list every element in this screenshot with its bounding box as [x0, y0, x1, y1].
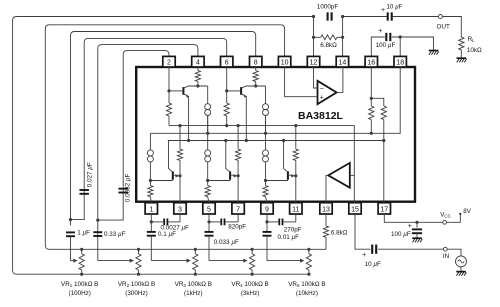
label 100uF top [376, 42, 396, 49]
label 0.33uF [104, 231, 126, 238]
junction pin11 line on bus1 [294, 124, 297, 127]
wire pin6 interior line [226, 67, 228, 126]
svg-text:(300Hz): (300Hz) [125, 290, 147, 297]
junction left resistor on bus2 [370, 132, 373, 135]
pin 10 [278, 56, 290, 67]
junction emitter on bus3 cell top1 [187, 139, 190, 142]
label OUT [437, 24, 450, 31]
svg-text:10 µF: 10 µF [386, 4, 402, 11]
pin 17 [378, 203, 390, 214]
transistor Q5 bar [287, 171, 289, 180]
label IN [443, 253, 450, 260]
junction VR3 top on bus [194, 248, 197, 251]
wire CS bottom [265, 162, 267, 181]
transistor Q2/cell2 emitter [241, 94, 247, 141]
junction pin18 ripple line [399, 35, 402, 38]
junction pin12 top [312, 15, 315, 18]
svg-text:10kΩ: 10kΩ [467, 47, 482, 54]
wiper arrow VR4 [209, 259, 248, 263]
wire pin2 interior line [168, 67, 170, 126]
capacitor 100uF Vcc [412, 222, 422, 237]
pin 8 [250, 56, 262, 67]
capacitor 0.0082uF [118, 189, 128, 193]
potentiometer VR2 100k [136, 249, 141, 274]
resistor to pin9 [263, 181, 268, 203]
capacitor 0.033uF [205, 222, 214, 261]
pin 11 [290, 203, 302, 214]
label 8V [463, 208, 472, 215]
junction Vcc decoupling [415, 221, 418, 224]
wiper arrow VR3 [151, 259, 190, 263]
capacitor 820pF [209, 214, 238, 225]
wire output feedback net (pot bottoms to OUT line) [13, 17, 314, 275]
label 1uF [77, 229, 90, 236]
wire pin14 vertical [342, 17, 344, 57]
junction emitter on pin3 line [178, 174, 181, 177]
resistor on pin3 line [177, 149, 182, 161]
wire OUT line right of pin14 [343, 16, 387, 18]
junction VR4 top on bus [251, 248, 254, 251]
pin 15 [349, 203, 361, 214]
svg-text:9: 9 [265, 206, 269, 213]
potentiometer VR4 100k [250, 249, 255, 274]
label plus 100uF top [378, 28, 382, 35]
svg-text:16: 16 [367, 59, 375, 66]
junction pin1 node [150, 220, 153, 223]
junction pin16 resistor top [370, 97, 373, 100]
label RL value [467, 47, 482, 54]
svg-text:8: 8 [254, 59, 258, 66]
wire pin11 line [295, 126, 297, 203]
wire pin12 vertical [313, 17, 315, 57]
wire base lead bot2 [208, 180, 230, 182]
pin 6 [221, 56, 233, 67]
label 0.0027uF [161, 225, 190, 232]
junction 6.8k left [312, 36, 315, 39]
svg-text:270pF: 270pF [284, 226, 302, 233]
resistor feedback left [369, 106, 374, 120]
svg-text:VR4 100kΩ B: VR4 100kΩ B [231, 281, 268, 288]
wire pin18 to ripple line [399, 37, 401, 56]
op-amp U1 (output amplifier) [318, 81, 337, 104]
svg-text:10 µF: 10 µF [365, 261, 381, 268]
svg-text:17: 17 [380, 206, 388, 213]
junction pin5 node [207, 220, 210, 223]
wire pin4 to band2 cap node [98, 45, 198, 261]
junction collector load [196, 84, 199, 87]
svg-text:10: 10 [281, 59, 289, 66]
junction 6.8k right [341, 36, 344, 39]
resistor RL 10k [459, 37, 464, 50]
svg-text:1 µF: 1 µF [77, 229, 90, 236]
wire base lead top2 [227, 90, 240, 92]
svg-text:6.8kΩ: 6.8kΩ [320, 42, 337, 49]
junction bus3 right end [382, 139, 385, 142]
svg-text:1000pF: 1000pF [317, 4, 339, 11]
capacitor 1uF [66, 232, 75, 236]
svg-text:+: + [408, 223, 412, 230]
wire pin10 to pot-top bus [45, 25, 326, 250]
wire resistor pair top link [371, 98, 384, 106]
resistor base cell top1 [166, 103, 171, 116]
junction pin14 top [341, 15, 344, 18]
transistor Q4 emitter [230, 174, 237, 178]
transistor Q2/cell2 bar [240, 87, 242, 95]
wire pin13 down [325, 214, 327, 226]
wire CS top to bus2 cell bot1 [149, 133, 151, 150]
junction CS on bus2 cell top2 [264, 132, 267, 135]
junction band2 node [96, 219, 99, 222]
potentiometer VR1 100k [79, 249, 84, 274]
pin 9 [261, 203, 273, 214]
pin 13 [320, 203, 332, 214]
label VR5 freq [296, 290, 318, 297]
junction emitter on bus3 cell top2 [245, 139, 248, 142]
pin 14 [336, 56, 348, 67]
svg-text:1: 1 [149, 206, 153, 213]
junction VR3 bottom on bus [194, 273, 197, 276]
label plus 10uF input [362, 252, 366, 259]
label RL [468, 36, 476, 43]
wire collector to current source [265, 86, 267, 104]
resistor 6.8k feedback [314, 35, 343, 40]
junction emitter on pin11 line [294, 174, 297, 177]
current source bottom cell1 [147, 150, 153, 162]
svg-text:(1kHz): (1kHz) [184, 290, 203, 297]
label VR4 freq [241, 290, 260, 297]
wire pin2 through C 0.0082uF to band2 node [98, 51, 169, 221]
svg-text:VR2 100kΩ B: VR2 100kΩ B [118, 281, 155, 288]
wire pin8 to band1 cap node [71, 32, 256, 226]
junction VR2 bottom on bus [137, 273, 140, 276]
source AC input [456, 256, 467, 267]
label VR5 [288, 281, 325, 288]
svg-text:+: + [378, 28, 382, 35]
junction collector on bus3 bot3 [282, 139, 285, 142]
junction VR2 top on bus [137, 248, 140, 251]
transistor Q4 collector [226, 141, 230, 173]
label BA3812L [298, 110, 344, 122]
svg-text:BA3812L: BA3812L [298, 110, 344, 122]
wire band1 cap to wiper [70, 236, 72, 260]
label 0.0082uF [125, 174, 132, 203]
bus node-1 (pin2 cell to pin15 buffer input) [169, 126, 354, 203]
wire pin4 interior [197, 67, 199, 71]
pin 1 [145, 203, 157, 214]
label VR2 [118, 281, 155, 288]
junction collector on bus3 bot2 [224, 139, 227, 142]
op-amp U2 (input buffer) [328, 163, 350, 188]
svg-text:(100Hz): (100Hz) [68, 290, 90, 297]
svg-text:(3kHz): (3kHz) [241, 290, 260, 297]
terminal 8V end [459, 213, 461, 215]
svg-text:0.027 µF: 0.027 µF [87, 162, 94, 187]
junction CS on bus2 cell top1 [206, 132, 209, 135]
wire pin7 line [237, 126, 239, 203]
current source top cell2 [263, 104, 269, 116]
wire U2 input from bus1/pin15 [350, 174, 355, 176]
resistor base cell top2 [224, 103, 229, 116]
svg-text:0.033 µF: 0.033 µF [214, 239, 239, 246]
wire pin10 to U1 non-inverting input [285, 67, 318, 97]
wire pin17 interior [383, 141, 385, 203]
label VR1 [61, 281, 98, 288]
junction VR5 bottom on bus [307, 273, 310, 276]
svg-text:820pF: 820pF [228, 223, 246, 230]
capacitor 100uF top [386, 33, 390, 41]
svg-text:18: 18 [396, 59, 404, 66]
junction VR4 bottom on bus [251, 273, 254, 276]
label Vcc [440, 211, 451, 218]
capacitor 0.01uF [263, 222, 272, 261]
transistor Q3 emitter [173, 174, 179, 178]
wire CS top to bus2 cell bot3 [265, 116, 267, 150]
svg-text:+: + [320, 94, 324, 101]
junction band1 node [69, 218, 72, 221]
wire pin9 junction [266, 214, 268, 222]
current source top cell1 [205, 104, 211, 116]
wire OUT to RL [442, 17, 461, 38]
label 0.01uF [278, 234, 300, 241]
wire base lead top1 [169, 90, 182, 92]
potentiometer VR3 100k [193, 249, 198, 274]
label VR3 freq [184, 290, 203, 297]
pin 2 [163, 56, 175, 67]
label VR2 freq [125, 290, 147, 297]
resistor feedback right [381, 106, 386, 120]
capacitor 0.1uF [147, 222, 156, 261]
resistor on pin7 line [236, 149, 241, 161]
pin 12 [307, 56, 319, 67]
wire pin15 to input cap [355, 214, 370, 249]
svg-text:(10kHz): (10kHz) [296, 290, 318, 297]
svg-text:15: 15 [351, 206, 359, 213]
svg-text:13: 13 [322, 206, 330, 213]
wire current source to bus2 [265, 116, 267, 134]
wire U2 output to pin13 [326, 175, 328, 202]
junction VR5 top on bus [307, 248, 310, 251]
svg-text:+: + [362, 252, 366, 259]
svg-text:0.33 µF: 0.33 µF [104, 231, 126, 238]
label 100uF Vcc [391, 231, 411, 238]
wire collector to current source [207, 86, 209, 104]
capacitor 0.0027uF [151, 214, 180, 225]
svg-text:−: − [320, 86, 324, 93]
svg-text:100 µF: 100 µF [391, 231, 411, 238]
bus node-2 (current sources to pin18) [150, 67, 400, 133]
capacitor 10uF input [372, 245, 376, 254]
label VR1 freq [68, 290, 90, 297]
wire IN to source [447, 249, 461, 256]
bus node-3 (emitter rail to pin17) [168, 140, 384, 142]
transistor Q3 collector [169, 141, 173, 173]
svg-text:8V: 8V [463, 208, 472, 215]
svg-text:RL: RL [468, 36, 476, 43]
svg-text:3: 3 [178, 206, 182, 213]
wire pin8 interior [255, 67, 257, 71]
wire base lead bot3 [266, 180, 288, 182]
label 10uF input [365, 261, 381, 268]
transistor Q5 collector [284, 141, 288, 173]
capacitor 270pF [267, 214, 296, 225]
svg-text:VCC: VCC [440, 211, 451, 218]
capacitor 1000pF [328, 12, 332, 20]
svg-text:0.0082 µF: 0.0082 µF [125, 174, 132, 203]
label 6.8k feedback [320, 42, 337, 49]
junction pin6 line on bus1 [225, 124, 228, 127]
capacitor 0.33uF [93, 232, 102, 236]
junction base tap bot3 [264, 179, 267, 182]
resistor to pin1 [148, 181, 153, 203]
wire RL to ground [460, 50, 462, 58]
potentiometer VR5 100k [306, 249, 311, 274]
wire base lead bot1 [150, 180, 172, 182]
junction base tap pin6 [225, 89, 228, 92]
svg-text:VR5 100kΩ B: VR5 100kΩ B [288, 281, 325, 288]
label 0.1uF [158, 231, 176, 238]
transistor Q3 bar [172, 171, 174, 180]
svg-text:OUT: OUT [437, 24, 450, 31]
label VR3 [175, 281, 212, 288]
wire input cap to IN terminal [378, 248, 443, 250]
label 820pF [228, 223, 246, 230]
svg-text:14: 14 [339, 59, 347, 66]
ground AC source [456, 272, 466, 276]
capacitor 10uF output [388, 12, 392, 20]
label 1000pF [317, 4, 339, 11]
junction pin7 line on bus1 [237, 124, 240, 127]
resistor 6.8k buffer output [323, 226, 328, 249]
pin 4 [192, 56, 204, 67]
pin 18 [394, 56, 406, 67]
svg-text:11: 11 [292, 206, 299, 213]
capacitor 0.027uF [79, 190, 89, 194]
svg-text:7: 7 [236, 206, 240, 213]
wire pin1 junction [150, 214, 152, 222]
svg-text:12: 12 [310, 59, 318, 66]
svg-text:+: + [381, 7, 385, 14]
label 0.033uF [214, 239, 239, 246]
junction collector load [254, 84, 257, 87]
junction pin3 line on bus1 [178, 124, 181, 127]
wire pin6 through C 0.027uF to band1 node [71, 38, 227, 219]
svg-text:IN: IN [443, 253, 450, 260]
wire CS bottom [149, 162, 151, 181]
transistor Q4 bar [229, 171, 231, 180]
junction pin9 node [265, 220, 268, 223]
label VR4 [231, 281, 268, 288]
transistor Q1/cell1 emitter [183, 94, 189, 141]
wire pin12 to U1 inverting input [314, 67, 318, 88]
label 0.027uF [87, 162, 94, 187]
junction base tap pin2 [167, 89, 170, 92]
wire pin17 to Vcc [384, 214, 443, 222]
svg-text:6.8kΩ: 6.8kΩ [331, 229, 348, 236]
transistor Q1/cell1 bar [182, 87, 184, 95]
svg-text:4: 4 [196, 59, 200, 66]
resistor collector load pin4 [195, 71, 200, 87]
current source bottom cell2 [205, 150, 211, 162]
pin 16 [365, 56, 377, 67]
label 10uF [386, 4, 402, 11]
svg-text:0.01 µF: 0.01 µF [278, 234, 300, 241]
ground RL [457, 58, 467, 62]
current source bottom cell3 [263, 150, 269, 162]
transistor Q1/cell1 collector [183, 86, 207, 88]
junction base tap bot1 [149, 179, 152, 182]
terminal OUT [438, 15, 442, 19]
transistor Q2/cell2 collector [241, 86, 265, 88]
wiper arrow VR1 [71, 259, 78, 263]
label 6.8k buffer [331, 229, 348, 236]
junction emitter on pin7 line [237, 174, 240, 177]
wire left resistor to bus2 [370, 120, 372, 134]
junction VR1 bottom on bus [80, 273, 83, 276]
wire pin5 junction [208, 214, 210, 222]
wire source to ground [460, 267, 462, 271]
wire pin16 interior [370, 67, 372, 106]
label 270pF [284, 226, 302, 233]
pin 3 [174, 203, 186, 214]
pin 5 [203, 203, 215, 214]
svg-text:0.1 µF: 0.1 µF [158, 231, 176, 238]
wire U1 output to pin14 [337, 67, 343, 92]
wire 100uF to ground [392, 37, 434, 50]
wire right resistor to bus3 [383, 120, 385, 141]
svg-text:2: 2 [167, 59, 171, 66]
resistor to pin5 [205, 181, 210, 203]
label plus 100uF Vcc [408, 223, 412, 230]
wire CS top to bus2 cell bot2 [207, 116, 209, 150]
label plus 10uF [381, 7, 385, 14]
wiper arrow VR5 [267, 259, 304, 263]
wire current source to bus2 [207, 116, 209, 134]
svg-text:VR1 100kΩ B: VR1 100kΩ B [61, 281, 98, 288]
junction VR1 top on bus [80, 248, 83, 251]
terminal Vcc [443, 220, 447, 224]
pin 7 [232, 203, 244, 214]
resistor collector load pin8 [253, 71, 258, 87]
terminal IN [443, 247, 447, 251]
wire pin16 up [371, 37, 385, 56]
ground 100uF top [429, 51, 439, 55]
wire CS bottom [207, 162, 209, 181]
svg-text:6: 6 [225, 59, 229, 66]
junction base tap bot2 [206, 179, 209, 182]
svg-text:100 µF: 100 µF [376, 42, 396, 49]
wire 10uF to OUT terminal [392, 16, 439, 18]
resistor on pin11 line [293, 149, 298, 161]
ground 100uF Vcc [412, 238, 422, 242]
IC BA3812L body [136, 67, 415, 202]
wire Vcc to 8V [447, 214, 461, 222]
svg-text:5: 5 [207, 206, 211, 213]
transistor Q5 emitter [288, 174, 295, 178]
wiper arrow VR2 [98, 259, 134, 263]
svg-text:VR3 100kΩ B: VR3 100kΩ B [175, 281, 212, 288]
wire pin3 line [179, 126, 181, 203]
